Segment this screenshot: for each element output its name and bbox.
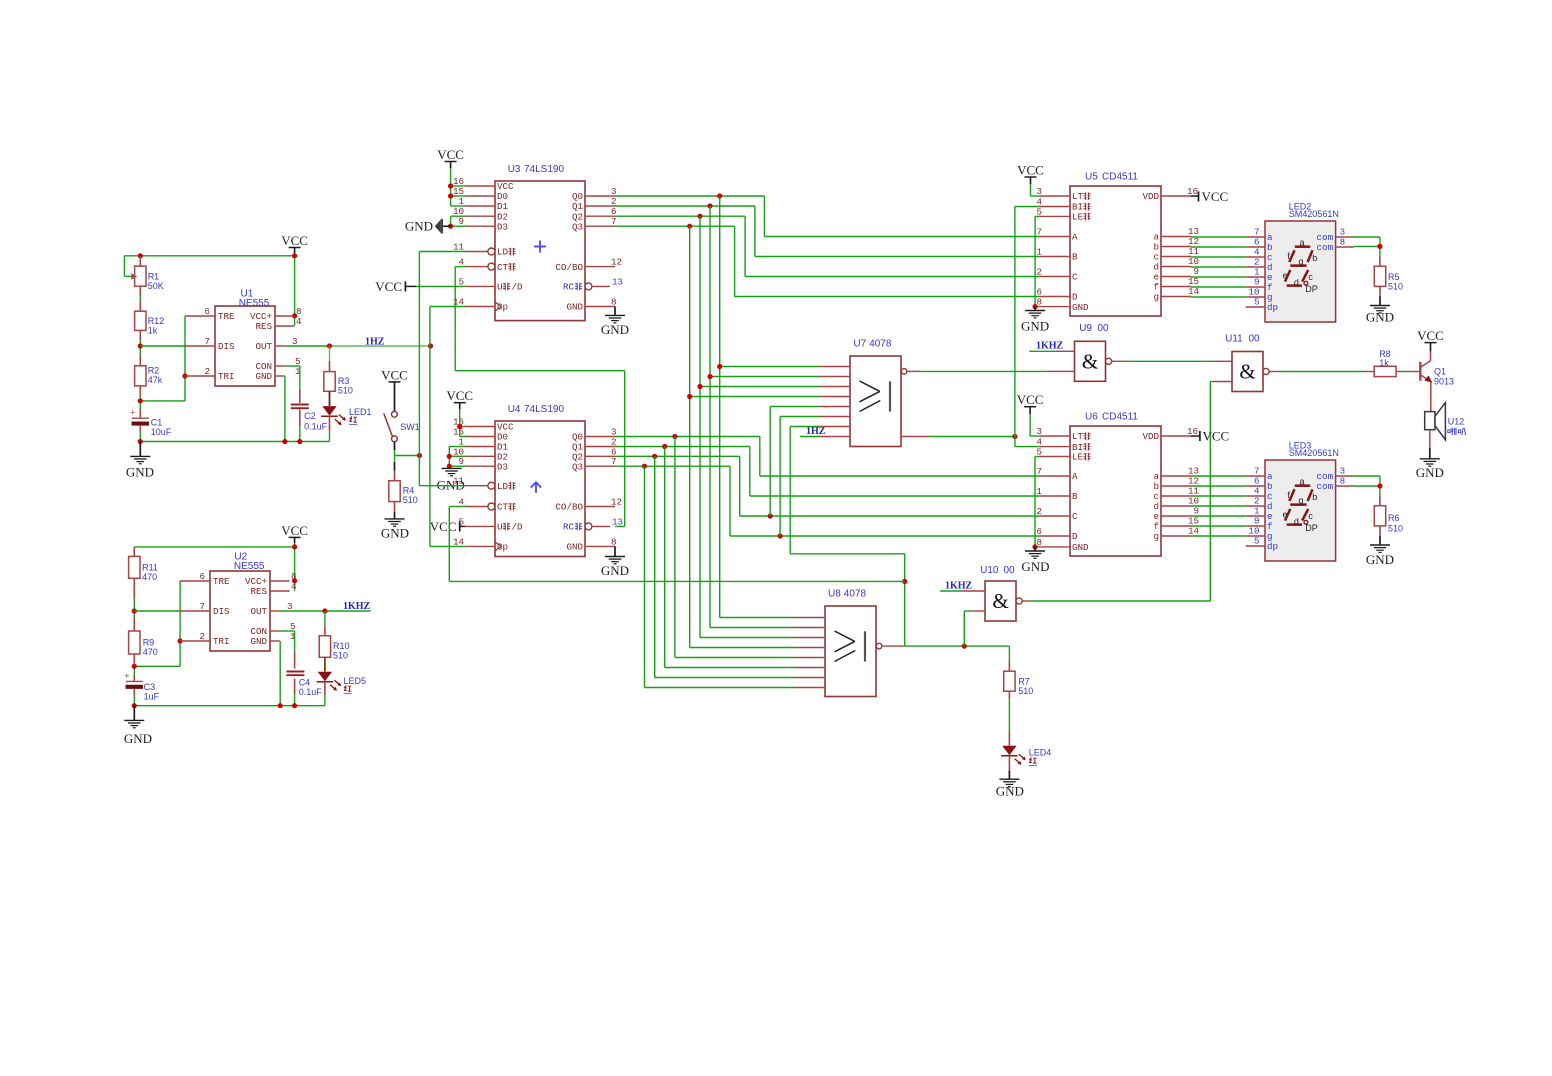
svg-text:12: 12 [611,497,622,508]
svg-text:dp: dp [1267,302,1278,313]
svg-text:B: B [1072,491,1078,502]
svg-text:GND: GND [601,322,629,337]
svg-text:1KHZ: 1KHZ [1036,341,1064,352]
svg-text:12: 12 [611,257,622,268]
junction TRI [182,373,187,378]
svg-text:U11: U11 [1225,334,1243,345]
ground GND (U1) [139,442,141,457]
junction VCC top U2 [292,544,297,549]
svg-text:B: B [1072,252,1078,263]
svg-text:b: b [1312,492,1317,502]
ground GND (LED4) [1008,756,1010,771]
svg-text:470: 470 [143,647,158,657]
wire CON net with C2 [285,365,300,367]
svg-text:LD: LD [497,481,509,492]
svg-text:8: 8 [1340,237,1346,248]
svg-text:NE555: NE555 [239,298,270,309]
svg-text:TRI: TRI [213,636,230,647]
decoder IC U6 CD4511 [1070,426,1161,556]
junction com LED2 [1377,244,1382,249]
svg-text:VCC: VCC [281,523,308,538]
svg-text:TRE: TRE [213,576,230,587]
timer IC U1 NE555 [215,306,275,386]
wire Q2 of U3 to U5.C [615,215,745,217]
ground GND (U6) [1034,547,1036,551]
svg-text:LE: LE [1072,452,1084,463]
ground GND (U4) [614,546,616,556]
8-input NOR/OR gate U7 4078 [850,356,901,447]
svg-text:VCC: VCC [1017,162,1044,177]
wire U4.CT to U8 output net [449,506,465,508]
ground flag GND (U3 D3) [442,225,451,227]
wire GND pin1 drop [284,376,286,442]
svg-text:510: 510 [1388,282,1403,292]
junction VCC/16 U4 [457,424,462,429]
svg-text:6: 6 [204,306,210,317]
svg-text:8: 8 [611,536,617,547]
svg-text:GND: GND [1072,302,1089,313]
svg-text:U10: U10 [980,565,999,576]
svg-text:1: 1 [1036,247,1042,258]
svg-text:U: U [497,522,503,533]
wire BI net up to U5.BI [1014,207,1016,437]
wire GND pin1 drop U2 [279,641,281,706]
junction 1HZ/Cp column [428,343,433,348]
capacitor C4 0.1uF [286,671,304,673]
7-segment display LED2 SM420561N [1265,221,1336,322]
junction BI net [1012,434,1017,439]
svg-text:R2: R2 [148,366,160,376]
svg-text:+: + [124,672,129,682]
svg-text:U4: U4 [508,404,521,415]
wire Q3b column down to U8.in8 [644,466,646,687]
resistor R10 510 [324,611,326,626]
svg-text:R11: R11 [142,563,158,573]
svg-text:GND: GND [566,542,583,553]
svg-text:R7: R7 [1018,677,1030,687]
7-segment display LED3 SM420561N [1265,460,1336,561]
svg-text:TRE: TRE [218,311,235,322]
NAND gate U10 [985,581,1016,621]
svg-text:A: A [1072,232,1078,243]
svg-text:b: b [1312,253,1317,263]
wire U1 bottom ground rail [329,431,331,441]
svg-text:RC: RC [563,282,575,293]
ground GND (R6) [1379,526,1381,536]
svg-text:1k: 1k [1379,358,1389,368]
svg-text:SM420561N: SM420561N [1289,209,1339,219]
svg-text:VCC: VCC [1202,189,1229,204]
wire LD net [419,251,465,253]
svg-text:6: 6 [199,571,205,582]
wire Q2 column down to U7.in3 and U8.in3 [699,216,701,637]
svg-text:CT: CT [497,502,509,513]
svg-text:4078: 4078 [844,588,867,599]
svg-text:R4: R4 [403,486,415,496]
svg-text:U12: U12 [1448,417,1465,427]
svg-text:U3: U3 [508,164,521,175]
svg-text:&: & [1239,360,1255,384]
svg-text:1HZ: 1HZ [806,426,826,437]
svg-text:Cp: Cp [497,542,508,553]
svg-text:com: com [1317,242,1334,253]
junction R9/C3 [132,664,137,669]
transistor Q1 9013 [1419,362,1421,381]
wire R8 to Q1 base [1396,371,1406,373]
svg-text:47k: 47k [148,375,163,385]
svg-text:Cp: Cp [497,302,508,313]
svg-text:GND: GND [1416,465,1444,480]
wire DIS net [140,345,185,347]
svg-text:c: c [1308,272,1313,282]
svg-text:CT: CT [497,262,509,273]
junction R12/R2/DIS [138,343,143,348]
net stub 1KHZ at U10 [940,590,962,592]
svg-text:VCC: VCC [375,279,402,294]
NAND gate U9 [1075,341,1106,381]
wire Q1 of U4 to U6.B [615,446,750,448]
svg-text:+: + [130,409,135,419]
svg-text:50K: 50K [148,281,164,291]
svg-text:8: 8 [1340,476,1346,487]
svg-text:1HZ: 1HZ [365,336,385,347]
svg-text:R1: R1 [148,272,160,282]
wire TRE-TRI net U2 [179,581,181,666]
resistor R5 510 [1379,257,1381,267]
svg-text:VCC: VCC [446,388,473,403]
switch SW1 [392,411,398,417]
svg-text:2: 2 [199,631,205,642]
svg-text:VCC: VCC [1417,328,1444,343]
svg-text:GND: GND [1366,552,1394,567]
svg-text:d: d [1294,278,1299,288]
svg-text:00: 00 [1004,565,1016,576]
svg-text:510: 510 [333,651,348,661]
svg-text:/D: /D [512,522,524,533]
svg-text:C: C [1072,511,1078,522]
svg-text:A: A [1072,471,1078,482]
svg-text:DIS: DIS [218,341,235,352]
U8 input leads [795,617,825,619]
svg-text:c: c [1308,511,1313,521]
svg-text:TRI: TRI [218,371,235,382]
svg-text:R6: R6 [1388,513,1400,523]
wire Q2b column down to U8.in7 [654,456,656,677]
svg-text:VDD: VDD [1142,191,1159,202]
timer IC U2 NE555 [210,571,270,651]
svg-text:d: d [1294,517,1299,527]
svg-text:470: 470 [142,572,157,582]
junction D3 gnd [447,464,452,469]
ground GND (U2) [133,706,135,721]
svg-text:g: g [1153,531,1159,542]
power flag VCC (U5 VDD) [1191,195,1199,197]
ground GND (R5) [1379,286,1381,296]
svg-text:R12: R12 [148,316,165,326]
svg-text:LED5: LED5 [344,676,367,686]
junction D3/GND flag [448,224,453,229]
wire U7 OR output to BI net [901,436,930,438]
svg-text:0.1uF: 0.1uF [299,687,323,697]
svg-text:4: 4 [296,316,302,327]
svg-text:VCC: VCC [381,367,408,382]
junction U6 GND [1032,544,1037,549]
svg-text:2: 2 [1036,506,1042,517]
resistor R6 510 [1379,496,1381,505]
svg-text:U: U [497,282,503,293]
svg-text:g: g [1298,256,1303,266]
NAND gate U11 [1232,352,1263,392]
svg-text:1k: 1k [148,326,158,336]
wire Q3 of U3 to U5.D [615,225,735,227]
junction OUT/R3 [327,343,332,348]
wire U7.in6 from Q3b row [779,417,781,537]
net stub 1HZ at U7.in8 [800,436,820,438]
svg-text:VCC: VCC [281,233,308,248]
LED LED5 red [324,657,326,671]
wire Cp clock net [430,306,465,308]
svg-text:R9: R9 [143,638,155,648]
svg-text:CO/BO: CO/BO [555,262,583,273]
LED LED4 red [1008,691,1010,698]
svg-text:510: 510 [403,495,418,505]
svg-text:7: 7 [204,336,210,347]
wire VCC to pin16/D0 of U4 [459,409,461,437]
svg-text:com: com [1317,481,1334,492]
U9 lower input lead [1060,370,1075,372]
junction U7.in6 tap [778,533,783,538]
U11 lower input from U10 [1210,381,1213,383]
svg-text:D3: D3 [497,461,508,472]
wire Q1 emitter to speaker [1430,382,1432,412]
wire VCC to U6.LT [1029,414,1031,436]
svg-text:GND: GND [1366,310,1394,325]
svg-text:D: D [1072,531,1078,542]
svg-text:VCC: VCC [1203,429,1230,444]
svg-text:a: a [1299,476,1304,486]
svg-text:U9: U9 [1079,323,1092,334]
junction Q0b column [672,434,677,439]
wire U5.LE to ground [1035,215,1040,217]
svg-text:e: e [1282,510,1287,520]
svg-text:2: 2 [1036,267,1042,278]
wire CON net with C4 [280,630,295,632]
svg-text:Q1: Q1 [1434,367,1446,377]
wire SW1 to load net [394,442,396,450]
junction Q1 column [707,203,712,208]
svg-text:GND: GND [255,371,272,382]
svg-text:DIS: DIS [213,606,230,617]
svg-text:1uF: 1uF [144,692,160,702]
wire DIS net U2 [134,610,180,612]
svg-text:14: 14 [1188,526,1200,537]
wire U11 output to R8 [1269,371,1279,373]
svg-text:510: 510 [1388,524,1403,534]
svg-text:2: 2 [204,366,210,377]
svg-text:LT: LT [1072,431,1084,442]
junction OUT/R10 [322,608,327,613]
svg-text:VCC: VCC [1017,392,1044,407]
svg-text:NE555: NE555 [234,561,265,572]
U10 lower input from U8 net [964,610,971,612]
svg-text:VDD: VDD [1142,431,1159,442]
svg-text:LED1: LED1 [349,407,372,417]
svg-text:GND: GND [566,302,583,313]
wire Q3 of U4 to U6.D [615,465,730,467]
wires U5 a-g to LED2 [1191,236,1246,238]
svg-text:Q3: Q3 [572,221,583,232]
svg-text:VCC: VCC [430,519,457,534]
wire Q3 column down to U7.in4 and U8.in4 [689,226,691,647]
junction Q2 column [697,214,702,219]
wire TRE-TRI net [184,316,186,401]
blue up-arrow symbol in U4 [535,483,537,493]
svg-text:GND: GND [124,731,152,746]
net stub 1KHZ at U9 [1029,350,1056,352]
resistor R4 510 [394,462,396,471]
svg-text:dp: dp [1267,541,1278,552]
wire Q0 of U4 to U6.A [615,436,760,438]
wires U6 a-g to LED3 [1191,475,1246,477]
svg-text:GND: GND [1021,559,1049,574]
svg-text:14: 14 [1188,286,1200,297]
svg-text:00: 00 [1098,323,1110,334]
svg-text:GND: GND [601,563,629,578]
svg-text:CD4511: CD4511 [1102,172,1138,183]
svg-text:&: & [1082,349,1098,373]
svg-text:OUT: OUT [250,606,267,617]
wire Q1 column down to U7.in2 and U8.in2 [709,206,711,628]
svg-text:DP: DP [1305,523,1318,533]
ground GND (U3) [614,307,616,316]
wire D1-D3 to ground U4 [448,447,450,469]
svg-text:4: 4 [291,581,297,592]
svg-text:7: 7 [1036,466,1042,477]
wire LED2 com to R5 [1354,236,1380,238]
svg-text:DP: DP [1305,284,1318,294]
svg-text:GND: GND [126,465,154,480]
svg-text:510: 510 [338,386,353,396]
junction R2/C1 [138,398,143,403]
svg-text:/D: /D [512,282,524,293]
junction VCC/pin8 [292,253,297,258]
potentiometer R1 50K [139,256,141,266]
junction bottom rail U2 [132,703,137,708]
wire U8 NOR output net [882,645,905,647]
svg-text:g: g [1153,292,1159,303]
svg-text:GND: GND [996,784,1024,799]
svg-text:Q3: Q3 [572,461,583,472]
ground GND (U12) [1429,430,1431,448]
wire Q1b column down to U8.in6 [664,447,666,668]
svg-text:CO/BO: CO/BO [555,502,583,513]
svg-text:RC: RC [563,522,575,533]
wire U7.in7 from U8 output net [789,427,791,554]
svg-text:LED4: LED4 [1029,748,1052,758]
resistor R11 470 [133,547,135,557]
junction Q1b column [662,444,667,449]
svg-text:U7: U7 [853,339,866,350]
svg-text:U5: U5 [1085,172,1098,183]
svg-text:LE: LE [1072,212,1084,223]
junction CT-b net [902,579,907,584]
svg-text:C2: C2 [304,411,316,421]
svg-text:SM420561N: SM420561N [1289,448,1339,458]
wire BI net down to U6.BI [1014,437,1016,447]
svg-text:a: a [1299,237,1304,247]
svg-text:6: 6 [1036,526,1042,537]
speaker U12 [1425,412,1435,430]
svg-text:VCC: VCC [437,147,464,162]
svg-text:GND: GND [1021,319,1049,334]
svg-text:5: 5 [1254,297,1260,308]
junction TRI U2 [178,638,183,643]
wire LED3 com to R6 [1354,475,1380,477]
svg-text:5: 5 [1254,536,1260,547]
junction U10 input tap [962,644,967,649]
wire OUT 1KHZ net U2 [280,610,371,612]
wire Q0b column down to U8.in5 [674,437,676,658]
svg-text:SW1: SW1 [400,422,420,432]
wire U7.in5 from Q2b row [769,407,771,517]
junction U7.in5 tap [768,513,773,518]
resistor R3 510 [329,346,331,361]
svg-text:CD4511: CD4511 [1102,412,1138,423]
svg-text:C4: C4 [299,678,311,688]
svg-text:74LS190: 74LS190 [524,164,564,175]
svg-text:U8: U8 [828,588,841,599]
ground GND (U4 presets) [442,467,462,469]
junction com LED3 [1377,483,1382,488]
svg-text:D3: D3 [497,221,508,232]
svg-text:g: g [1298,495,1303,505]
svg-text:1KHZ: 1KHZ [343,601,371,612]
wire U9 output to U11 [1112,360,1124,362]
wire U2 bottom ground rail [134,705,325,707]
svg-text:LT: LT [1072,191,1084,202]
wire VCC to U5.LT [1030,184,1032,196]
ground GND (U5) [1034,307,1036,311]
svg-text:C: C [1072,272,1078,283]
svg-text:7: 7 [199,601,205,612]
svg-text:R5: R5 [1388,272,1400,282]
wire VCC to D0/D1 of U3 [450,168,452,206]
svg-text:C1: C1 [151,418,163,428]
power flag VCC (U6 VDD) [1191,435,1200,437]
svg-text:RES: RES [255,321,272,332]
svg-text:U6: U6 [1085,412,1098,423]
svg-text:e: e [1282,271,1287,281]
svg-text:00: 00 [1249,334,1261,345]
resistor R7 510 [1008,646,1010,661]
wire VCC net U1 top [124,255,294,257]
capacitor C2 0.1uF [291,404,309,406]
svg-text:9013: 9013 [1434,377,1454,387]
blue plus symbol in U3 [534,246,546,248]
svg-text:LD: LD [497,247,509,258]
wire U7 NOR output to U9 [906,370,920,372]
svg-text:RES: RES [250,586,267,597]
svg-text:R10: R10 [333,641,350,651]
svg-text:GND: GND [250,636,267,647]
wire Q1 of U3 to U5.B [615,205,755,207]
decoder IC U5 CD4511 [1070,186,1161,316]
wire OUT 1HZ net [285,345,330,347]
junction D2 gnd [447,454,452,459]
wire D2/D3 to GND flag [450,216,452,226]
wire Q0 of U3 to U5.A [615,195,764,197]
junction Q3b column [642,464,647,469]
